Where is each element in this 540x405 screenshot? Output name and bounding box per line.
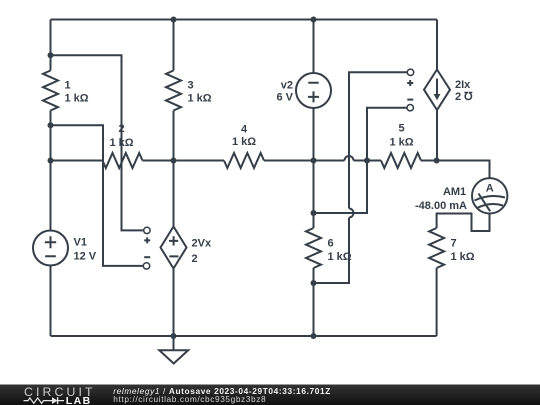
svg-text:V1: V1 [74,236,87,248]
wire hop on x=349 over y=213 [349,209,354,218]
svg-text:1: 1 [65,79,71,91]
svg-text:6: 6 [328,237,334,249]
wire R1 leads [50,55,52,125]
svg-text:12 V: 12 V [74,250,97,262]
wire v2 column [313,20,315,337]
wire main rail R5 to ammeter [421,161,490,179]
svg-text:1 kΩ: 1 kΩ [232,136,256,148]
resistor R5 [381,122,421,168]
footer [0,385,540,405]
wire plus-terminal branch lower [314,218,350,284]
label + (right pair) [407,80,413,86]
svg-text:1 kΩ: 1 kΩ [65,93,89,105]
wire R6 top to minus-terminal branch [314,108,407,213]
wire R3 column [173,20,175,337]
svg-text:1 kΩ: 1 kΩ [328,251,352,263]
resistor R7 [429,228,475,268]
svg-text:1 kΩ: 1 kΩ [451,251,475,263]
wire main rail R2 to R4 [143,160,225,162]
dependent current source 2Ix [424,70,473,111]
svg-text:7: 7 [451,237,457,249]
open terminal + (Vx probe) [144,227,150,233]
wire bottom rail [51,335,437,337]
svg-text:1 kΩ: 1 kΩ [109,137,133,149]
svg-text:2: 2 [118,123,124,135]
svg-text:6 V: 6 V [276,91,293,103]
resistor R4 [224,123,264,168]
svg-text:A: A [486,183,494,195]
open terminal - (Vx probe) [143,263,149,269]
footer bar [0,385,540,405]
wire node A to probe + terminal [51,55,144,230]
label + (Vx probe) [144,237,150,243]
svg-text:1 kΩ: 1 kΩ [188,93,212,105]
svg-text:3: 3 [188,79,194,91]
svg-text:AM1: AM1 [443,186,466,198]
svg-text:2Ix: 2Ix [455,79,471,91]
open terminal - (right pair) [407,105,413,111]
resistor R1 [43,71,89,111]
label - (right pair) [407,99,413,101]
wire left column upper [50,20,52,231]
svg-text:http://circuitlab.com/cbc935gb: http://circuitlab.com/cbc935gbz3bz8 [113,394,266,404]
svg-text:v2: v2 [281,79,293,91]
svg-text:5: 5 [398,122,404,134]
svg-text:2: 2 [192,253,198,265]
CircuitLab logo resistor-diode squiggle [24,398,65,403]
wire node B to probe - terminal [51,125,144,266]
svg-text:LAB: LAB [66,395,92,405]
label - (Vx probe) [144,256,150,258]
wire left column lower [50,266,52,337]
wire main rail R4 to hop [264,160,345,162]
ammeter AM1 [415,178,507,213]
voltage source V1 [33,231,97,266]
ground [159,336,188,364]
resistor R6 [306,228,352,268]
dependent voltage source 2Vx [161,227,212,269]
svg-text:1 kΩ: 1 kΩ [389,137,413,149]
svg-text:4: 4 [241,123,248,135]
voltage source v2 [276,73,331,108]
resistor R3 [166,71,212,111]
wire 2Ix column [436,20,438,161]
svg-text:2 ℧: 2 ℧ [455,91,473,103]
wire top rail [51,19,438,21]
svg-text:-48.00 mA: -48.00 mA [415,200,467,212]
svg-text:2Vx: 2Vx [192,237,212,249]
wire main rail hop to R5 [354,160,382,162]
wire hop over vertical at x=349 [345,156,354,161]
wire R7 bottom lead [436,268,438,336]
wire main rail left of R2 [51,160,103,162]
resistor R2 [103,123,143,168]
open terminal + (right pair) [407,69,413,75]
wire plus-terminal branch upper [349,72,407,208]
wire ammeter to R7 [437,214,490,232]
